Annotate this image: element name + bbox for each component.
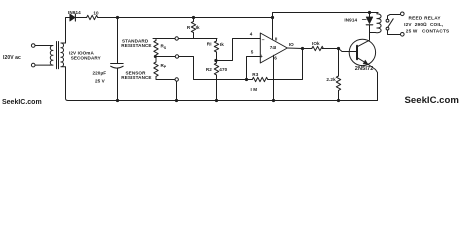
svg-text:SECONDARY: SECONDARY [71, 55, 101, 60]
svg-text:SeekIC.com: SeekIC.com [2, 99, 42, 106]
open terminals [31, 12, 404, 81]
node dot output / 2.2k [337, 47, 340, 50]
junction dots [116, 11, 371, 102]
svg-text:220µF: 220µF [93, 71, 107, 76]
relay coil [375, 13, 381, 33]
svg-text:25 V: 25 V [95, 78, 106, 83]
node dot upper rail / diode D2 [368, 11, 371, 14]
wire bridge line (Rs top / R bottom / R1 top) [153, 38, 217, 40]
svg-text:25 W CONTACTS: 25 W CONTACTS [406, 28, 450, 33]
label tick 1N914 to diode [362, 19, 366, 21]
terminal circle3 [175, 78, 178, 81]
reed contact pivot [386, 27, 389, 30]
svg-text:IN914: IN914 [68, 10, 81, 15]
svg-text:+: + [260, 54, 263, 60]
rail dot sensor terminal [175, 99, 178, 102]
svg-text:RP: RP [161, 63, 167, 69]
svg-text:2N5I72: 2N5I72 [355, 66, 374, 72]
transformer terminal leads [35, 46, 50, 66]
svg-text:−: − [262, 38, 265, 44]
svg-text:10: 10 [93, 11, 99, 16]
svg-text:4: 4 [250, 31, 253, 36]
reed terminal top [401, 12, 405, 16]
wire secondary top lead up to top rail [66, 18, 70, 44]
node dot Rs-Rp junction [154, 55, 157, 58]
svg-text:5: 5 [251, 50, 254, 55]
svg-text:REED RELAY: REED RELAY [409, 15, 442, 20]
terminal circle1 bridge [175, 37, 178, 40]
transistor collector lead [357, 33, 370, 47]
svg-text:Ik: Ik [196, 25, 200, 30]
rail dot capacitor [116, 99, 119, 102]
resistor R3 1M horizontal [252, 77, 274, 81]
wire R3 right to feedback riser [274, 49, 303, 80]
node dot top rail / capacitor [116, 16, 119, 19]
terminal 120V top [31, 44, 35, 48]
svg-text:II: II [275, 36, 278, 41]
terminal circle2 [175, 55, 178, 58]
op-amp output wire [287, 47, 312, 50]
reed switch lower lead [388, 30, 401, 35]
diode D2 1N914 (flyback, vertical) [369, 13, 371, 17]
node dot output feedback tap [301, 47, 304, 50]
resistor R 1k vertical (top middle) [191, 18, 195, 39]
transistor emitter lead [357, 58, 368, 64]
svg-text:IOk: IOk [312, 41, 320, 46]
transistor emitter arrow [363, 60, 368, 64]
rail dot R2 [215, 99, 218, 102]
reed contact upper [386, 19, 389, 22]
resistor 10 ohm (top-left) [87, 15, 98, 19]
wire Rs-Rp junction to terminal circle2 line [155, 57, 252, 80]
svg-text:I2V 290Ω COIL,: I2V 290Ω COIL, [404, 22, 443, 27]
terminal 120V bottom [31, 63, 35, 67]
wire R1-R2 junction to op-amp pin 4 [216, 39, 260, 61]
transformer T1 secondary winding [61, 43, 66, 67]
wire op-amp pin 5 input [247, 57, 261, 80]
wire emitter down to rail [368, 64, 378, 101]
wire top rail step up and right to relay [273, 13, 379, 18]
resistor Rp sensor resistance [154, 57, 175, 80]
svg-text:R2: R2 [206, 67, 212, 72]
resistor 2.2k vertical [336, 49, 340, 101]
op-amp U1 741 triangle [260, 33, 287, 63]
capacitor C1 lead bottom [117, 68, 119, 101]
rail dot pin6 [272, 99, 275, 102]
svg-text:470: 470 [219, 67, 227, 72]
resistor 10k horizontal [312, 46, 323, 50]
svg-text:RESISTANCE: RESISTANCE [121, 43, 151, 48]
svg-text:RS: RS [161, 43, 167, 49]
wire 10k to transistor base [322, 49, 356, 52]
transformer core [57, 42, 59, 69]
diode D1 1N914 (top-left, pointing right) [69, 17, 87, 19]
wire R2 bottom to ground rail [216, 80, 218, 101]
svg-text:R: R [187, 25, 191, 30]
transistor base bar [356, 46, 358, 60]
svg-text:I M: I M [251, 87, 258, 92]
svg-text:74I: 74I [270, 45, 277, 50]
wire op-amp pin 6 to ground rail [273, 55, 275, 100]
reed terminal bottom [401, 33, 405, 37]
svg-text:RESISTANCE: RESISTANCE [121, 75, 151, 80]
wire op-amp V+ pin 11 [272, 18, 274, 40]
reed switch blade [388, 19, 393, 27]
wire terminal circle3 down to ground rail [176, 81, 178, 100]
wire top rail to step [98, 17, 273, 19]
ground rail bottom [66, 67, 378, 101]
transistor Q1 2N5172 circle [349, 39, 375, 65]
svg-text:Ik: Ik [220, 42, 224, 47]
resistor R1 1k vertical [214, 39, 218, 61]
capacitor C1 220uF lead top [117, 18, 119, 64]
node dot R1-R2 junction [214, 59, 217, 62]
node dot top rail / op-amp V+ [271, 16, 274, 19]
resistor Rs standard resistance [154, 39, 158, 57]
svg-text:R3: R3 [252, 72, 258, 77]
rail dot 2.2k [337, 99, 340, 102]
svg-text:6: 6 [274, 56, 277, 61]
svg-text:IO: IO [289, 42, 294, 47]
capacitor C1 plates [111, 63, 124, 65]
svg-text:SeekIC.com: SeekIC.com [405, 95, 459, 106]
svg-text:RI: RI [207, 42, 212, 47]
transformer T1 primary winding [50, 46, 53, 66]
reed switch upper contact stub [388, 15, 401, 20]
node dot pin5 / R3 left [245, 78, 248, 81]
svg-text:IN914: IN914 [344, 18, 357, 23]
svg-text:I20V ac: I20V ac [3, 55, 21, 61]
svg-text:2.2k: 2.2k [326, 77, 336, 82]
node dot top rail / R [192, 16, 195, 19]
resistor R2 470 vertical [214, 61, 218, 80]
